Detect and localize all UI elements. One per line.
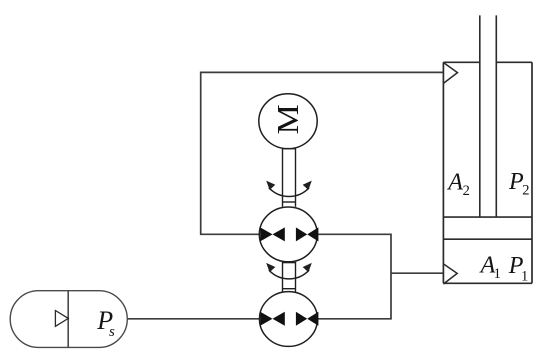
cylinder rod-side port arrow (open) [443, 63, 457, 84]
pump U2 right bowtie triangles [296, 312, 319, 326]
shaft: pump U1 to pump U2 [283, 262, 296, 292]
pump U1 circle [259, 207, 317, 262]
accumulator Ps capsule body [10, 291, 127, 348]
label P2 [508, 169, 530, 199]
pump U2 circle [259, 292, 317, 347]
wire: pump U1 right port to vertical bus and down to pump U2 right port [317, 234, 391, 318]
accumulator gas triangle (open, pointing right) [55, 311, 68, 327]
svg-text:A: A [446, 170, 463, 196]
label A2 [446, 170, 470, 200]
pump U1 right bowtie triangles [296, 227, 319, 241]
shaft: motor to pump U1 [283, 148, 296, 206]
motor label M (rotated) [271, 104, 305, 134]
svg-text:2: 2 [463, 183, 470, 199]
label Ps [96, 306, 115, 340]
rotation arrow 2 (bidirectional) [266, 263, 312, 279]
rotation arrow 1 (bidirectional) [266, 181, 312, 197]
wire: top loop from cylinder rod-side port left and down to pump U1 left port [201, 72, 444, 234]
cylinder piston rod [480, 15, 497, 217]
svg-text:2: 2 [522, 183, 529, 199]
svg-text:1: 1 [521, 268, 528, 284]
wire: branch from bus to cylinder piston-side port [391, 272, 443, 274]
cylinder piston-side port arrow (open) [443, 264, 457, 284]
cylinder body walls [443, 62, 532, 283]
label A1 [479, 253, 501, 283]
label P1 [508, 253, 528, 284]
svg-text:1: 1 [494, 266, 501, 282]
accumulator separator line [67, 291, 69, 348]
pump U2 left bowtie triangles [260, 312, 285, 326]
pump U1 left bowtie triangles [260, 227, 285, 241]
svg-text:s: s [109, 324, 115, 340]
svg-text:M: M [271, 104, 305, 134]
cylinder piston [443, 217, 532, 239]
motor M circle [259, 94, 317, 149]
wire: accumulator Ps outlet to pump U2 left port [127, 318, 260, 320]
